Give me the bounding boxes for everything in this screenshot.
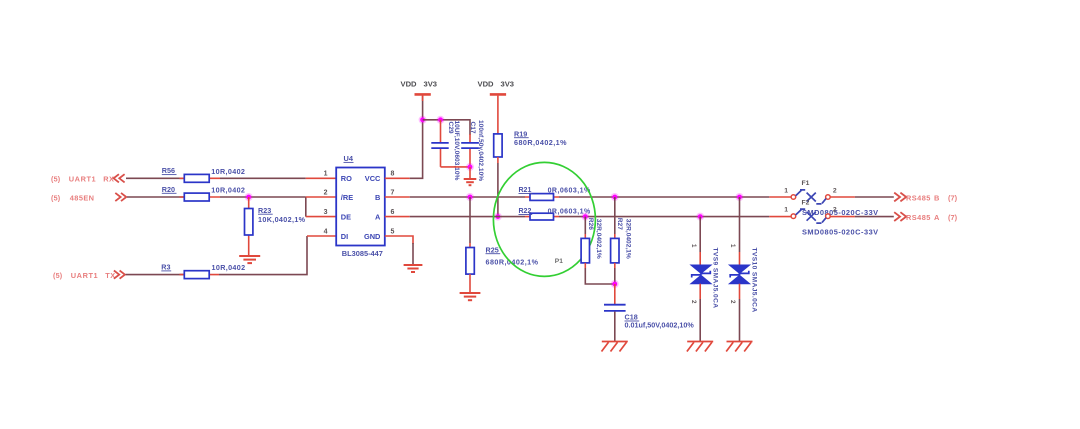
ground under caps <box>464 167 477 185</box>
svg-text:2: 2 <box>729 300 736 304</box>
ground under TVS9 (chassis) <box>687 342 713 352</box>
svg-text:1: 1 <box>784 207 788 214</box>
svg-text:RO: RO <box>341 174 352 183</box>
svg-text:32R,0402,1%: 32R,0402,1% <box>625 219 632 259</box>
svg-text:4: 4 <box>324 228 328 235</box>
svg-text:B: B <box>375 193 380 202</box>
node junction C29 top <box>438 117 443 122</box>
svg-text:2: 2 <box>324 189 328 196</box>
svg-text:(7): (7) <box>948 193 958 202</box>
svg-text:F2: F2 <box>802 199 810 206</box>
ground under TVS10 (chassis) <box>726 342 752 352</box>
svg-text:3V3: 3V3 <box>501 79 515 88</box>
fuse F2 SMD0805-020C-33V <box>784 199 878 236</box>
wire F2 to port A <box>830 216 855 218</box>
wire A to F2 <box>769 216 791 218</box>
port RS485 B <box>894 193 957 203</box>
ground under C18 (chassis) <box>602 342 628 352</box>
svg-text:2: 2 <box>833 207 837 214</box>
node junction A/TVS9 <box>698 214 703 219</box>
svg-text:VDD: VDD <box>478 79 495 88</box>
resistor R3 <box>161 263 245 279</box>
svg-text:DI: DI <box>341 232 348 241</box>
svg-text:6: 6 <box>391 209 395 216</box>
svg-text:100nf,50v,0402,10%: 100nf,50v,0402,10% <box>477 120 484 181</box>
svg-text:1: 1 <box>324 171 328 178</box>
wire B line mid <box>559 196 769 198</box>
wire A line left <box>410 216 525 218</box>
svg-text:RS485: RS485 <box>906 213 931 222</box>
svg-text:10K,0402,1%: 10K,0402,1% <box>258 215 306 224</box>
svg-text:10R,0402: 10R,0402 <box>212 263 246 272</box>
wire pin6 stub <box>385 216 410 218</box>
resistor R20 <box>162 185 245 201</box>
svg-text:VDD: VDD <box>401 79 418 88</box>
node junction B/R25 <box>468 195 473 200</box>
wire R56 to pin1 <box>220 177 306 179</box>
ground under pin5 <box>404 265 423 272</box>
svg-text:TVS10 SMAJ5.0CA: TVS10 SMAJ5.0CA <box>751 248 758 313</box>
svg-text:(5): (5) <box>51 175 61 184</box>
wire A line mid <box>559 216 769 218</box>
wire B line left <box>410 196 525 198</box>
port 485EN <box>51 193 126 202</box>
wire pin5 stub <box>385 236 413 244</box>
junction node R23/485EN <box>246 195 251 200</box>
svg-text:/RE: /RE <box>341 193 353 202</box>
resistor R26 <box>581 217 602 268</box>
capacitor C17 <box>461 120 484 181</box>
svg-text:R23: R23 <box>258 206 271 215</box>
svg-text:RX: RX <box>103 175 114 184</box>
wire F1 to port B <box>830 196 855 198</box>
svg-text:R56: R56 <box>162 166 175 175</box>
svg-text:R19: R19 <box>514 129 527 138</box>
wire TVS9 bottom lead <box>699 284 701 299</box>
port UART1 RX <box>51 174 125 183</box>
capacitor C29 <box>431 120 460 181</box>
svg-text:B: B <box>934 193 939 202</box>
wire pin1 stub <box>306 177 336 179</box>
port RS485 A <box>894 212 957 222</box>
svg-text:485EN: 485EN <box>70 193 95 202</box>
wire pin4 stub <box>307 235 336 237</box>
svg-text:10R,0402: 10R,0402 <box>211 186 245 195</box>
svg-text:3V3: 3V3 <box>424 79 438 88</box>
wire pin8 to VDD <box>410 96 423 179</box>
node junction VDD rail <box>420 117 425 122</box>
svg-text:A: A <box>934 213 940 222</box>
capacitor C18 <box>604 284 694 341</box>
svg-text:1: 1 <box>729 244 736 248</box>
op-amp U4 BL3085-447 <box>336 154 385 258</box>
wire TVS10 bottom lead <box>739 284 741 299</box>
svg-text:2: 2 <box>833 188 837 195</box>
svg-text:(5): (5) <box>53 271 63 280</box>
wire B to F1 <box>769 196 791 198</box>
fuse F1 SMD0805-020C-33V <box>784 180 878 217</box>
wire pin8 stub <box>385 177 410 179</box>
resistor R22 <box>519 208 591 220</box>
svg-text:32R,0402,1%: 32R,0402,1% <box>595 219 602 259</box>
wire B to R25 <box>469 197 471 243</box>
svg-text:UART1: UART1 <box>71 271 98 280</box>
svg-text:R3: R3 <box>161 263 170 272</box>
green highlight ellipse <box>493 162 595 276</box>
wire cap bottom rail <box>441 166 471 168</box>
svg-text:R20: R20 <box>162 185 175 194</box>
node junction B/TVS10 <box>737 195 742 200</box>
svg-text:2: 2 <box>690 300 697 304</box>
svg-text:RS485: RS485 <box>906 193 931 202</box>
wire TVS10 top lead <box>739 197 741 252</box>
svg-text:8: 8 <box>391 171 395 178</box>
svg-text:1: 1 <box>784 188 788 195</box>
svg-text:VCC: VCC <box>365 174 381 183</box>
resistor R25 <box>466 243 539 293</box>
svg-text:(7): (7) <box>948 213 958 222</box>
svg-text:F1: F1 <box>802 180 810 187</box>
svg-text:R25: R25 <box>486 245 499 254</box>
transistor TVS10 diode SMAJ5.0CA <box>729 244 758 313</box>
svg-text:P1: P1 <box>555 258 563 265</box>
svg-text:10R,0402: 10R,0402 <box>211 167 245 176</box>
transistor TVS9 diode SMAJ5.0CA <box>690 244 719 308</box>
svg-text:C17: C17 <box>469 122 476 134</box>
node junction A/R26 <box>583 214 588 219</box>
node junction R19/A <box>496 214 501 219</box>
svg-text:3: 3 <box>324 209 328 216</box>
wire R26/R27 bottom rail <box>585 268 615 284</box>
port UART1 TX <box>53 271 125 280</box>
svg-text:(5): (5) <box>51 193 61 202</box>
svg-text:U4: U4 <box>344 154 354 163</box>
svg-text:BL3085-447: BL3085-447 <box>342 249 383 258</box>
wire R3 to pin4 <box>219 236 307 275</box>
svg-text:UART1: UART1 <box>69 175 96 184</box>
wire R20 to pins 2/3 <box>220 197 306 217</box>
node junction B/R27 <box>612 195 617 200</box>
svg-text:R26: R26 <box>587 218 594 230</box>
resistor R56 <box>162 166 245 182</box>
node junction rail/C18 <box>612 282 617 287</box>
wire TVS9 top lead <box>699 217 701 252</box>
ground under R25 <box>460 293 481 300</box>
svg-text:680R,0402,1%: 680R,0402,1% <box>486 257 539 266</box>
svg-text:10UF,10V,0603,10%: 10UF,10V,0603,10% <box>453 121 460 181</box>
power VDD 3V3 (right) <box>478 79 515 134</box>
wire R19 to A line <box>497 163 499 217</box>
svg-text:680R,0402,1%: 680R,0402,1% <box>514 138 567 147</box>
wire pin2 stub <box>306 196 336 198</box>
ground under R23 <box>239 256 260 263</box>
wire TX to R3 <box>126 274 185 276</box>
svg-text:C29: C29 <box>447 122 454 134</box>
svg-text:DE: DE <box>341 213 351 222</box>
svg-text:7: 7 <box>391 189 395 196</box>
wire cap top rail <box>423 120 470 135</box>
svg-text:SMD0805-020C-33V: SMD0805-020C-33V <box>802 227 879 236</box>
wire pin5 down <box>412 243 414 265</box>
svg-text:TVS9 SMAJ5.0CA: TVS9 SMAJ5.0CA <box>712 248 719 309</box>
wire pin3 stub <box>306 216 336 218</box>
svg-text:0R,0603,1%: 0R,0603,1% <box>548 188 591 195</box>
node junction cap bottom <box>468 165 473 170</box>
wire pin7 stub <box>385 196 410 198</box>
resistor R19 <box>494 129 567 163</box>
svg-text:GND: GND <box>364 232 381 241</box>
wire RX to R56 <box>126 177 184 179</box>
svg-text:R27: R27 <box>616 218 623 230</box>
resistor R23 <box>245 197 306 255</box>
svg-text:1: 1 <box>690 244 697 248</box>
svg-text:0.01uf,50V,0402,10%: 0.01uf,50V,0402,10% <box>625 321 695 330</box>
power VDD 3V3 (left) <box>401 79 438 101</box>
resistor R21 <box>519 187 591 200</box>
svg-text:5: 5 <box>391 228 395 235</box>
svg-text:A: A <box>375 213 381 222</box>
wire 485EN to R20 <box>127 196 184 198</box>
resistor R27 <box>611 197 632 268</box>
